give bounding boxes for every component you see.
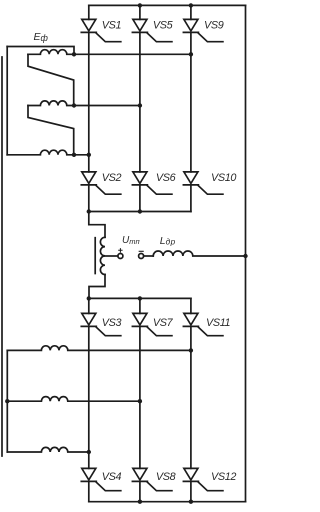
thyristor VS10 xyxy=(183,172,223,194)
wire branch 2 lower segments xyxy=(139,298,141,501)
wire branch 3 lower segments xyxy=(190,298,192,501)
wire top bus xyxy=(89,4,246,6)
svg-text:VS3: VS3 xyxy=(102,317,122,329)
terminal circle minus xyxy=(139,254,144,259)
svg-text:VS4: VS4 xyxy=(102,471,122,483)
junction dot lower top bus branch 1 xyxy=(87,296,91,300)
wire secondary left bus (top winding block) xyxy=(6,47,8,155)
inductor Ldr choke xyxy=(153,251,245,256)
winding phase coil row 3 xyxy=(7,150,89,155)
thyristor VS7 xyxy=(132,313,172,335)
junction dot row1 left xyxy=(72,52,76,56)
thyristor VS8 xyxy=(132,468,172,490)
svg-text:VS10: VS10 xyxy=(211,172,236,184)
minus mark xyxy=(139,250,143,252)
junction dot row3 left xyxy=(72,153,76,157)
wire zigzag link row2-left to row3 xyxy=(28,106,74,155)
junction dot choke to right rail xyxy=(243,254,247,258)
wire reactor center tap xyxy=(105,255,118,257)
junction dot row3 to branch 1 xyxy=(87,153,91,157)
reactor winding (center-tapped) xyxy=(100,237,105,274)
junction dot row2 to branch 2 xyxy=(138,103,142,107)
junction dot rowC to branch 1 xyxy=(87,450,91,454)
reactor core bar xyxy=(94,238,96,274)
plus mark xyxy=(119,249,122,252)
wire upper bridge lower bus xyxy=(89,211,191,213)
winding phase coil row A xyxy=(7,346,191,351)
junction dot top bus branch 2 xyxy=(138,3,142,7)
svg-text:VS5: VS5 xyxy=(153,20,174,32)
svg-text:VS12: VS12 xyxy=(211,471,236,483)
svg-text:Lдр: Lдр xyxy=(160,236,176,247)
svg-text:VS11: VS11 xyxy=(206,317,231,329)
wire branch 1 lower segments xyxy=(88,298,90,501)
wire right rail xyxy=(245,5,247,501)
thyristor VS12 xyxy=(183,468,223,490)
wire branch 1 upper segments xyxy=(88,5,90,211)
wire reactor feed from upper bridge xyxy=(89,212,105,238)
svg-text:Uтп: Uтп xyxy=(122,235,140,246)
svg-text:VS9: VS9 xyxy=(204,20,224,32)
thyristor VS6 xyxy=(132,172,172,194)
junction dot bottom bus branch 3 xyxy=(189,500,193,504)
wire bottom bus xyxy=(89,501,246,503)
junction dot top bus branch 3 xyxy=(189,3,193,7)
thyristor VS2 xyxy=(81,172,121,194)
wire lower bridge top bus xyxy=(89,297,191,299)
wire from minus terminal to choke xyxy=(144,255,154,257)
junction dot mid bus branch 2 xyxy=(138,209,142,213)
wire zigzag link row1-left to row2 xyxy=(28,54,74,105)
wire branch 3 upper segments xyxy=(190,5,192,211)
wire top link from bus to phase row 1 xyxy=(7,47,74,55)
svg-text:VS8: VS8 xyxy=(156,471,176,483)
junction dot row2 left xyxy=(72,103,76,107)
winding phase coil row B xyxy=(7,397,140,402)
junction dot mid bus branch 1 xyxy=(87,209,91,213)
svg-text:VS6: VS6 xyxy=(156,172,176,184)
thyristor VS9 xyxy=(183,19,223,41)
thyristor VS4 xyxy=(81,468,121,490)
winding phase coil row C xyxy=(7,447,89,452)
svg-text:Eф: Eф xyxy=(34,31,49,43)
thyristor VS11 xyxy=(183,313,223,335)
wire branch 2 upper segments xyxy=(139,5,141,211)
wire outer left line xyxy=(1,57,3,456)
thyristor VS3 xyxy=(81,313,121,335)
svg-text:VS2: VS2 xyxy=(102,172,122,184)
winding phase coil row 1 xyxy=(28,50,191,55)
junction dot rowA to branch 3 xyxy=(189,348,193,352)
svg-text:VS1: VS1 xyxy=(102,20,122,32)
junction dot rowB star bus xyxy=(5,399,9,403)
thyristor VS1 xyxy=(81,19,121,41)
wire reactor bottom lead to lower bridge xyxy=(89,275,105,299)
wire star bus (bottom winding block) xyxy=(6,350,8,452)
junction dot rowB to branch 2 xyxy=(138,399,142,403)
terminal circle plus xyxy=(118,254,123,259)
thyristor VS5 xyxy=(132,19,172,41)
junction dot lower top bus branch 2 xyxy=(138,296,142,300)
junction dot bottom bus branch 2 xyxy=(138,500,142,504)
svg-text:VS7: VS7 xyxy=(153,317,174,329)
junction dot row1 to branch 3 xyxy=(189,52,193,56)
winding phase coil row 2 xyxy=(28,101,140,106)
